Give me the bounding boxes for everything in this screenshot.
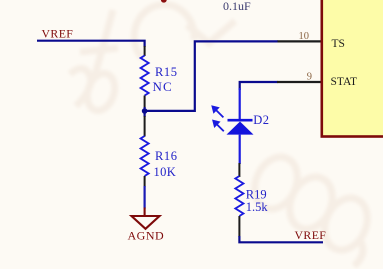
wire STAT pin to D2 column: [240, 82, 278, 90]
IC U? body (charger IC, cut off at right/top): [322, 0, 383, 137]
node junction dot: [142, 108, 148, 114]
wire junction to TS corner: [145, 41, 278, 111]
wire R19 to VREF: [239, 236, 323, 242]
resistor R19 top pin: [238, 163, 240, 177]
svg-text:R16: R16: [155, 149, 178, 163]
wire VREF horizontal to R15 column: [37, 41, 145, 47]
resistor R19 zigzag: [235, 176, 243, 216]
LED D2 triangle: [227, 122, 254, 135]
resistor R16 top pin: [144, 116, 146, 137]
svg-text:AGND: AGND: [128, 229, 165, 243]
wire R16 to AGND: [144, 186, 146, 209]
svg-text:9: 9: [307, 72, 312, 83]
pin 9 lead (black): [277, 81, 321, 83]
resistor R15 top pin: [144, 46, 146, 56]
resistor R15 bottom pin: [144, 96, 146, 109]
svg-text:TS: TS: [332, 38, 345, 50]
svg-text:VREF: VREF: [42, 27, 74, 41]
ground AGND power port: [132, 208, 160, 229]
resistor R19 bottom pin: [238, 216, 240, 237]
wire through junction: [144, 107, 146, 117]
capacitor C? cut-off mark top: [161, 0, 167, 3]
svg-text:R15: R15: [155, 65, 178, 79]
pin 10 lead (black): [278, 40, 322, 42]
svg-text:10K: 10K: [154, 165, 177, 179]
LED D2 bottom lead: [239, 135, 241, 164]
svg-text:D2: D2: [253, 113, 269, 127]
svg-text:0.1uF: 0.1uF: [223, 0, 251, 13]
LED D2 emission arrow 2: [213, 121, 224, 132]
svg-text:NC: NC: [153, 79, 173, 94]
LED D2 emission arrow 1: [213, 107, 224, 118]
svg-text:STAT: STAT: [331, 76, 358, 88]
svg-text:10: 10: [299, 31, 310, 42]
LED D2 top lead: [239, 88, 241, 120]
resistor R16 bottom pin: [144, 176, 146, 187]
resistor R15 zigzag: [141, 56, 149, 96]
resistor R16 zigzag: [141, 136, 149, 176]
svg-text:1.5k: 1.5k: [246, 200, 269, 214]
LED D2 cathode bar: [228, 119, 253, 122]
svg-text:VREF: VREF: [295, 228, 327, 242]
